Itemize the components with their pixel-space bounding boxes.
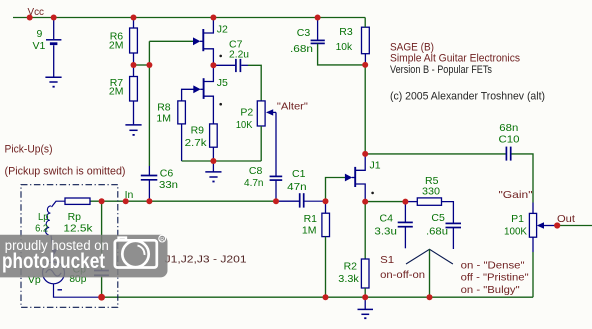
pin marker J2 — [219, 55, 222, 58]
svg-text:V1: V1 — [33, 40, 46, 52]
svg-text:C1: C1 — [292, 168, 306, 180]
wire J1 source net — [365, 201, 405, 203]
svg-text:on - "Dense": on - "Dense" — [461, 260, 525, 272]
pin marker J5 — [219, 103, 222, 106]
resistor R7 — [133, 65, 135, 77]
wire R3/C3 net down to J1 rail — [364, 65, 366, 154]
pickup enclosure dashed box — [21, 185, 118, 308]
svg-text:C8: C8 — [249, 165, 263, 177]
svg-text:"Alter": "Alter" — [277, 100, 308, 112]
wire ground rail bottom — [102, 296, 533, 298]
svg-text:off - "Pristine": off - "Pristine" — [461, 271, 529, 283]
potentiometer P2 — [257, 101, 265, 126]
capacitor C5 — [446, 223, 462, 227]
svg-text:Version B - Popular FETs: Version B - Popular FETs — [390, 64, 492, 76]
svg-text:"Gain": "Gain" — [499, 189, 533, 201]
capacitor C3 — [317, 18, 319, 41]
resistor R8 — [178, 101, 186, 124]
svg-text:J1: J1 — [370, 159, 381, 171]
svg-text:J2: J2 — [217, 23, 228, 35]
svg-text:1M: 1M — [302, 224, 317, 236]
svg-text:photobucket: photobucket — [2, 249, 105, 273]
svg-text:J5: J5 — [217, 77, 228, 89]
svg-text:(c) 2005 Alexander Troshnev (a: (c) 2005 Alexander Troshnev (alt) — [390, 91, 545, 103]
capacitor C10 — [506, 147, 510, 161]
svg-text:J1,J2,J3 - J201: J1,J2,J3 - J201 — [165, 254, 247, 266]
resistor R2 — [364, 202, 366, 259]
wire J1 drain rail — [365, 153, 506, 155]
ground (R2 net) — [364, 297, 366, 309]
svg-text:9: 9 — [37, 28, 43, 40]
capacitor Cp — [101, 201, 103, 270]
svg-text:C10: C10 — [499, 134, 520, 146]
svg-text:S1: S1 — [380, 254, 394, 266]
svg-text:.68u: .68u — [426, 225, 448, 237]
capacitor C4 — [404, 202, 406, 222]
wire branch vertical to C6 — [148, 41, 150, 166]
svg-text:R2: R2 — [344, 260, 358, 272]
svg-text:10K: 10K — [236, 119, 253, 131]
svg-text:.68n: .68n — [290, 43, 313, 55]
transistor J2 — [203, 18, 213, 66]
wire J2 gate feed — [149, 40, 197, 42]
battery V1 — [46, 18, 61, 78]
resistor R9 — [210, 124, 218, 147]
svg-text:R8: R8 — [157, 101, 171, 113]
transistor J1 — [326, 178, 346, 202]
resistor R6 — [133, 18, 135, 29]
capacitor C6 — [141, 176, 158, 180]
svg-text:Rp: Rp — [68, 211, 82, 223]
svg-text:R9: R9 — [191, 125, 205, 137]
svg-text:Out: Out — [557, 213, 575, 225]
ground (R9 net) — [212, 161, 214, 172]
wire Vcc rail — [13, 17, 365, 19]
svg-text:Lp: Lp — [38, 211, 49, 223]
svg-text:4.7n: 4.7n — [244, 177, 264, 189]
resistor Rp — [65, 198, 90, 204]
svg-text:C3: C3 — [297, 27, 311, 39]
svg-text:47n: 47n — [287, 181, 307, 193]
svg-text:P1: P1 — [511, 213, 524, 225]
svg-text:1M: 1M — [156, 113, 171, 125]
capacitor C8 — [270, 176, 283, 180]
svg-text:100K: 100K — [504, 225, 527, 237]
potentiometer P1 — [529, 213, 536, 237]
svg-text:Pick-Up(s): Pick-Up(s) — [5, 144, 53, 156]
wire bottom of R8/R9/P2 net — [182, 160, 262, 162]
svg-text:6.2: 6.2 — [35, 223, 48, 235]
svg-text:(Pickup switch is omitted): (Pickup switch is omitted) — [5, 166, 126, 178]
capacitor C7 — [213, 64, 235, 66]
resistor R5 — [417, 198, 441, 205]
svg-text:12.5k: 12.5k — [63, 223, 93, 235]
transistor J5 — [182, 65, 214, 124]
svg-text:R3: R3 — [339, 26, 353, 38]
svg-text:Simple Alt Guitar Electronics: Simple Alt Guitar Electronics — [390, 53, 520, 65]
switch S1 — [406, 249, 453, 264]
svg-text:10k: 10k — [336, 41, 353, 53]
svg-text:330: 330 — [422, 186, 440, 198]
pin marker J1 — [371, 192, 374, 195]
svg-text:C4: C4 — [380, 213, 394, 225]
wire R6/R7 junction to branch — [134, 64, 150, 66]
svg-text:C6: C6 — [160, 167, 174, 179]
watermark photobucket — [0, 235, 168, 278]
inductor Lp — [46, 206, 54, 262]
wire In net — [90, 200, 278, 202]
svg-text:SAGE (B): SAGE (B) — [390, 42, 434, 54]
svg-text:33n: 33n — [159, 179, 178, 191]
svg-text:R: R — [160, 237, 164, 243]
source Vp — [43, 262, 65, 284]
resistor R1 — [325, 201, 327, 213]
svg-text:on - "Bulgy": on - "Bulgy" — [461, 284, 520, 296]
svg-text:on-off-on: on-off-on — [380, 269, 425, 281]
svg-text:2M: 2M — [109, 40, 124, 52]
ground (R7) — [125, 125, 141, 135]
svg-text:2M: 2M — [109, 86, 124, 98]
svg-text:3.3u: 3.3u — [374, 226, 397, 238]
svg-text:R1: R1 — [304, 213, 318, 225]
svg-text:3.3k: 3.3k — [338, 273, 359, 285]
svg-text:68n: 68n — [499, 122, 518, 134]
resistor R3 — [362, 27, 370, 54]
svg-text:2.7k: 2.7k — [185, 137, 208, 149]
svg-text:2.2u: 2.2u — [229, 48, 249, 60]
capacitor C1 — [300, 193, 304, 207]
svg-text:P2: P2 — [240, 106, 253, 118]
svg-text:C5: C5 — [431, 212, 445, 224]
ground (battery) — [45, 77, 61, 86]
